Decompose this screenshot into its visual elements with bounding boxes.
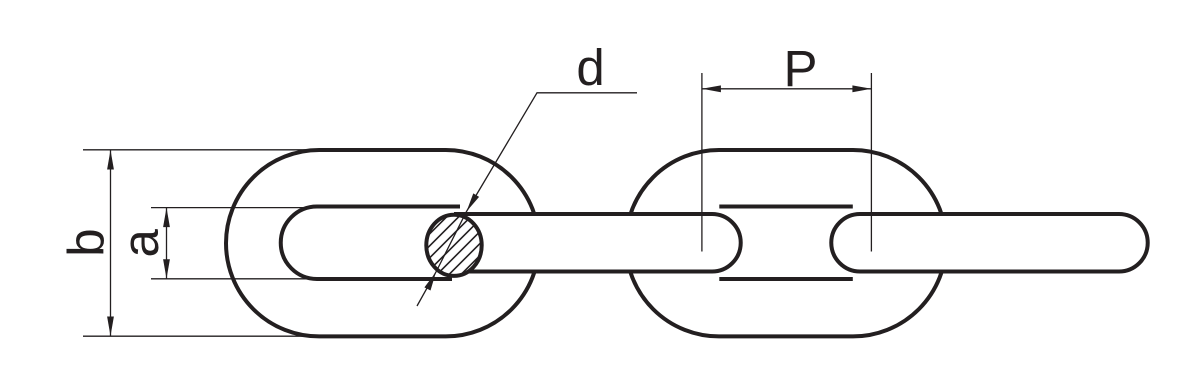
dimension P arrow left: [702, 85, 721, 92]
horizontal link H1 body (edge view, between L1 and L2): [454, 214, 741, 272]
svg-text:P: P: [784, 40, 818, 97]
chain link L2 inner opening top edge: [719, 205, 853, 209]
svg-text:b: b: [58, 228, 115, 256]
svg-text:d: d: [576, 39, 604, 96]
hatch lines of cross-section: [376, 204, 532, 288]
chain link L1 outer outline: [226, 150, 539, 336]
dimension a arrow up: [163, 208, 170, 228]
svg-text:a: a: [112, 228, 169, 257]
leader line for d: [417, 93, 637, 306]
dimension P arrow right: [852, 85, 871, 92]
dimension a bottom extension line: [151, 278, 310, 280]
dimension b arrow down: [107, 317, 114, 337]
dimension P right extension line: [870, 73, 872, 252]
leader arrow lower (points to circle bottom): [424, 272, 436, 291]
wire cross-section circle (diameter d): [426, 215, 481, 276]
dimension b arrow up: [107, 150, 114, 170]
dimension b top extension line: [83, 149, 326, 151]
dimension a arrow down: [163, 259, 170, 279]
dimension b bottom extension line: [83, 335, 326, 337]
horizontal link H2 body (edge view, right side): [831, 214, 1147, 272]
chain link L2 inner opening bottom edge: [719, 277, 853, 281]
chain link L2 outer outline: [626, 150, 946, 336]
dimension P left extension line: [701, 73, 703, 252]
dimension P line: [702, 88, 872, 90]
leader arrow upper (points to circle top): [467, 193, 480, 211]
dimension a line: [166, 208, 168, 279]
chain link L1 inner opening: [281, 207, 460, 280]
dimension a top extension line: [151, 207, 310, 209]
dimension b line: [110, 150, 112, 336]
